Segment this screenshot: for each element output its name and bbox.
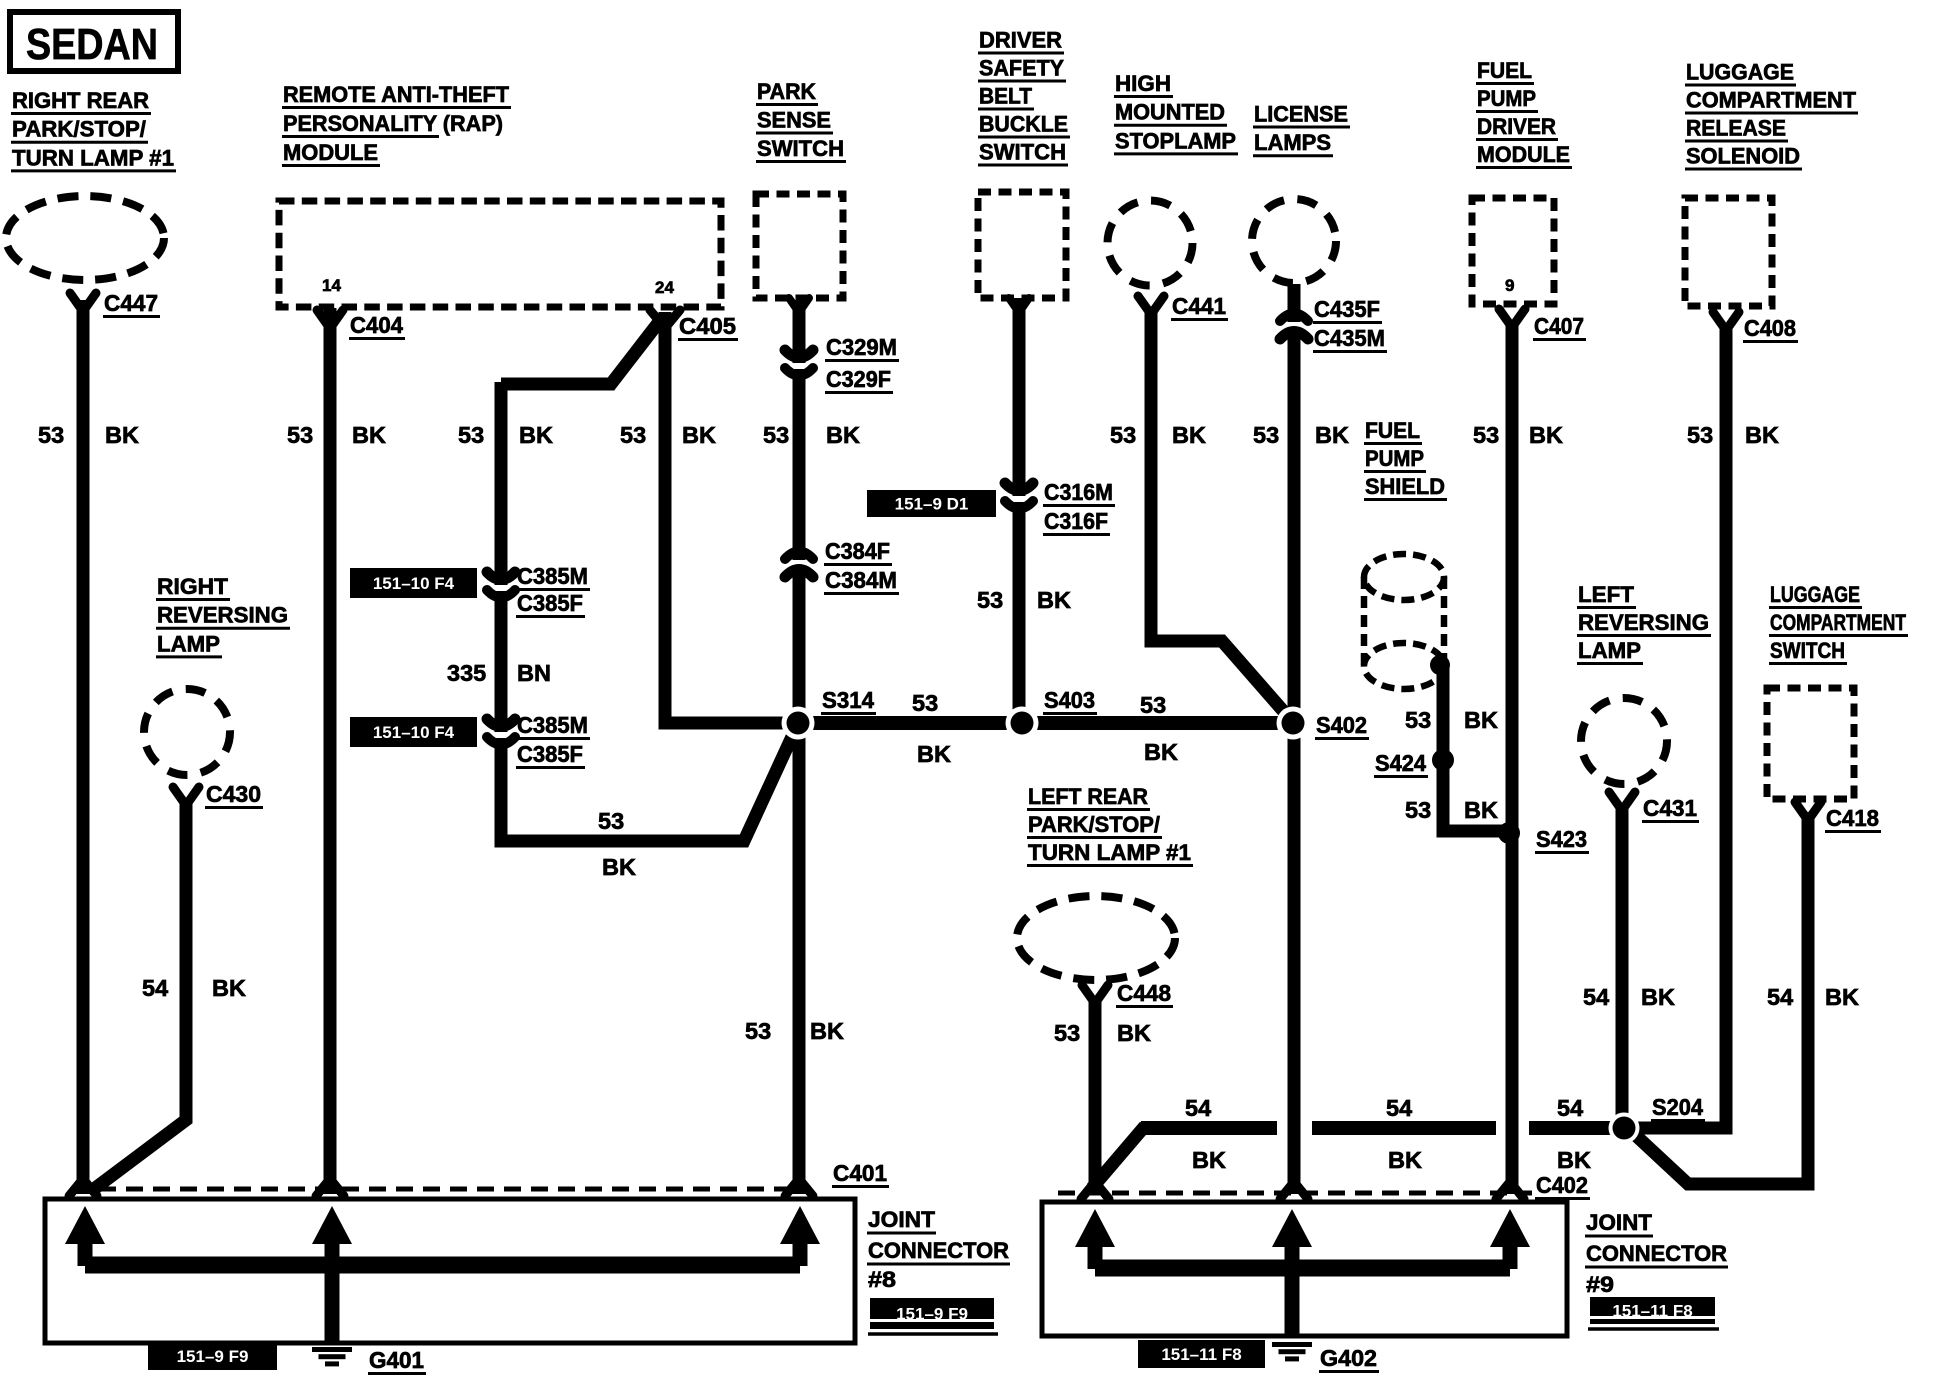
svg-text:S314: S314 — [822, 687, 874, 713]
svg-text:SWITCH: SWITCH — [757, 136, 844, 161]
svg-text:S403: S403 — [1044, 687, 1095, 713]
svg-text:LAMP: LAMP — [157, 631, 220, 656]
svg-text:54: 54 — [1767, 984, 1793, 1010]
svg-text:53: 53 — [1054, 1020, 1080, 1046]
svg-text:53: 53 — [1687, 422, 1713, 448]
svg-text:FUEL: FUEL — [1477, 58, 1532, 83]
svg-text:LICENSE: LICENSE — [1254, 102, 1348, 127]
svg-text:BK: BK — [1745, 422, 1779, 448]
svg-text:53: 53 — [745, 1018, 771, 1044]
svg-text:SOLENOID: SOLENOID — [1686, 144, 1800, 169]
svg-text:C385M: C385M — [517, 712, 588, 738]
svg-text:RIGHT: RIGHT — [157, 574, 229, 599]
svg-text:PUMP: PUMP — [1477, 86, 1536, 111]
svg-text:BK: BK — [519, 422, 553, 448]
svg-text:S423: S423 — [1536, 826, 1587, 852]
svg-text:BK: BK — [1144, 739, 1178, 765]
svg-text:C441: C441 — [1172, 293, 1226, 319]
svg-text:53: 53 — [620, 422, 646, 448]
svg-text:COMPARTMENT: COMPARTMENT — [1770, 610, 1906, 635]
svg-text:PUMP: PUMP — [1365, 446, 1424, 471]
svg-text:DRIVER: DRIVER — [979, 28, 1062, 53]
svg-text:LEFT REAR: LEFT REAR — [1028, 784, 1148, 809]
svg-text:53: 53 — [763, 422, 789, 448]
svg-text:CONNECTOR: CONNECTOR — [1586, 1241, 1727, 1266]
svg-text:LAMP: LAMP — [1578, 638, 1641, 663]
svg-text:PARK/STOP/: PARK/STOP/ — [12, 117, 146, 142]
svg-text:C418: C418 — [1826, 805, 1879, 831]
svg-text:BK: BK — [352, 422, 386, 448]
svg-text:BK: BK — [105, 422, 139, 448]
svg-text:C407: C407 — [1534, 313, 1584, 339]
svg-text:C329M: C329M — [826, 334, 897, 360]
svg-text:BK: BK — [810, 1018, 844, 1044]
svg-text:C384F: C384F — [825, 538, 890, 564]
svg-text:C385F: C385F — [517, 741, 583, 767]
svg-text:SEDAN: SEDAN — [26, 20, 158, 69]
svg-text:STOPLAMP: STOPLAMP — [1115, 128, 1236, 153]
svg-text:CONNECTOR: CONNECTOR — [868, 1238, 1009, 1263]
svg-text:BK: BK — [682, 422, 716, 448]
svg-text:LEFT: LEFT — [1578, 582, 1635, 607]
svg-text:BK: BK — [826, 422, 860, 448]
svg-text:C385F: C385F — [517, 590, 583, 616]
svg-text:SENSE: SENSE — [757, 108, 831, 133]
svg-text:53: 53 — [1253, 422, 1279, 448]
svg-text:TURN LAMP #1: TURN LAMP #1 — [12, 145, 174, 170]
svg-text:BK: BK — [602, 854, 636, 880]
svg-text:SHIELD: SHIELD — [1365, 474, 1445, 499]
svg-text:#8: #8 — [868, 1267, 896, 1292]
svg-text:HIGH: HIGH — [1115, 71, 1171, 96]
svg-text:S424: S424 — [1375, 750, 1426, 776]
svg-text:54: 54 — [1185, 1095, 1211, 1121]
svg-text:REMOTE ANTI-THEFT: REMOTE ANTI-THEFT — [283, 82, 510, 107]
svg-text:BK: BK — [1172, 422, 1206, 448]
svg-text:53: 53 — [1110, 422, 1136, 448]
svg-text:C401: C401 — [833, 1160, 887, 1186]
svg-text:C329F: C329F — [826, 366, 891, 392]
svg-text:TURN LAMP #1: TURN LAMP #1 — [1028, 840, 1191, 865]
svg-text:53: 53 — [912, 690, 938, 716]
svg-text:53: 53 — [458, 422, 484, 448]
svg-text:#9: #9 — [1586, 1272, 1614, 1297]
svg-text:BK: BK — [1641, 984, 1675, 1010]
svg-text:54: 54 — [1583, 984, 1609, 1010]
svg-text:C404: C404 — [350, 312, 403, 338]
svg-text:LUGGAGE: LUGGAGE — [1770, 582, 1860, 607]
svg-text:C431: C431 — [1643, 795, 1697, 821]
svg-text:MOUNTED: MOUNTED — [1115, 100, 1225, 125]
svg-text:9: 9 — [1505, 276, 1514, 295]
svg-text:FUEL: FUEL — [1365, 418, 1420, 443]
svg-text:53: 53 — [38, 422, 64, 448]
svg-text:151–9 F9: 151–9 F9 — [177, 1347, 249, 1366]
svg-text:BK: BK — [917, 741, 951, 767]
svg-text:S402: S402 — [1316, 712, 1367, 738]
svg-text:DRIVER: DRIVER — [1477, 114, 1556, 139]
svg-text:JOINT: JOINT — [868, 1207, 936, 1232]
svg-text:BK: BK — [1037, 587, 1071, 613]
svg-text:53: 53 — [977, 587, 1003, 613]
svg-text:14: 14 — [322, 276, 341, 295]
svg-text:53: 53 — [287, 422, 313, 448]
svg-text:LUGGAGE: LUGGAGE — [1686, 60, 1794, 85]
svg-text:BK: BK — [1315, 422, 1349, 448]
svg-text:MODULE: MODULE — [1477, 142, 1570, 167]
svg-text:151–9 D1: 151–9 D1 — [895, 495, 969, 514]
svg-text:BK: BK — [212, 975, 246, 1001]
svg-text:151–10 F4: 151–10 F4 — [373, 574, 455, 593]
svg-text:SWITCH: SWITCH — [1770, 638, 1845, 663]
svg-text:C384M: C384M — [825, 567, 897, 593]
svg-text:SAFETY: SAFETY — [979, 56, 1064, 81]
svg-text:C316F: C316F — [1044, 508, 1108, 534]
svg-text:JOINT: JOINT — [1586, 1210, 1653, 1235]
svg-text:54: 54 — [142, 975, 168, 1001]
svg-text:SWITCH: SWITCH — [979, 140, 1066, 165]
svg-text:COMPARTMENT: COMPARTMENT — [1686, 88, 1857, 113]
svg-text:53: 53 — [1140, 692, 1166, 718]
svg-text:54: 54 — [1386, 1095, 1412, 1121]
svg-text:C447: C447 — [104, 290, 158, 316]
svg-text:151–10 F4: 151–10 F4 — [373, 723, 455, 742]
svg-text:MODULE: MODULE — [283, 140, 378, 165]
svg-text:BK: BK — [1192, 1147, 1226, 1173]
svg-text:BN: BN — [517, 660, 551, 686]
svg-text:BK: BK — [1464, 707, 1498, 733]
svg-text:335: 335 — [447, 660, 486, 686]
svg-text:C430: C430 — [206, 781, 261, 807]
svg-text:C448: C448 — [1117, 980, 1171, 1006]
svg-text:BK: BK — [1117, 1020, 1151, 1046]
svg-text:BK: BK — [1825, 984, 1859, 1010]
svg-text:C385M: C385M — [517, 563, 588, 589]
svg-text:PERSONALITY (RAP): PERSONALITY (RAP) — [283, 111, 503, 136]
svg-text:C316M: C316M — [1044, 479, 1113, 505]
svg-text:BUCKLE: BUCKLE — [979, 112, 1068, 137]
svg-text:53: 53 — [598, 808, 624, 834]
svg-text:54: 54 — [1557, 1095, 1583, 1121]
svg-text:151–11 F8: 151–11 F8 — [1161, 1345, 1241, 1364]
svg-text:LAMPS: LAMPS — [1254, 130, 1331, 155]
svg-text:RIGHT REAR: RIGHT REAR — [12, 88, 149, 113]
svg-text:PARK: PARK — [757, 79, 816, 104]
svg-text:24: 24 — [655, 278, 674, 297]
svg-text:RELEASE: RELEASE — [1686, 116, 1786, 141]
svg-text:REVERSING: REVERSING — [1578, 610, 1709, 635]
svg-text:BK: BK — [1388, 1147, 1422, 1173]
svg-text:C435F: C435F — [1314, 296, 1380, 322]
svg-text:G401: G401 — [369, 1347, 424, 1373]
svg-text:C402: C402 — [1536, 1172, 1588, 1198]
svg-text:REVERSING: REVERSING — [157, 603, 288, 628]
svg-text:PARK/STOP/: PARK/STOP/ — [1028, 812, 1160, 837]
svg-text:BELT: BELT — [979, 84, 1033, 109]
svg-text:S204: S204 — [1652, 1094, 1703, 1120]
svg-text:C408: C408 — [1744, 315, 1796, 341]
svg-text:BK: BK — [1557, 1147, 1591, 1173]
svg-text:53: 53 — [1405, 707, 1431, 733]
svg-text:BK: BK — [1529, 422, 1563, 448]
svg-text:C405: C405 — [679, 313, 736, 339]
svg-text:BK: BK — [1464, 797, 1498, 823]
svg-text:G402: G402 — [1320, 1345, 1377, 1371]
svg-text:53: 53 — [1405, 797, 1431, 823]
svg-text:53: 53 — [1473, 422, 1499, 448]
svg-text:C435M: C435M — [1314, 325, 1385, 351]
